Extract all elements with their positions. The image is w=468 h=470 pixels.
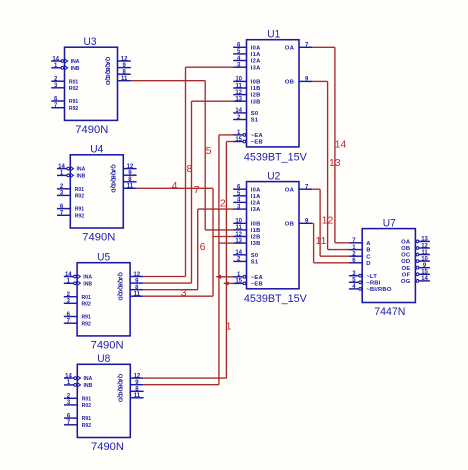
svg-text:INA: INA (83, 275, 92, 281)
svg-text:I0A: I0A (251, 45, 261, 51)
svg-text:I0B: I0B (251, 221, 261, 227)
svg-text:10: 10 (235, 219, 242, 225)
svg-text:15: 15 (235, 279, 242, 285)
svg-text:8: 8 (186, 163, 192, 175)
svg-text:I0B: I0B (251, 80, 261, 86)
svg-text:11: 11 (134, 393, 141, 399)
svg-text:2: 2 (220, 197, 226, 209)
svg-text:U7: U7 (383, 218, 396, 230)
svg-text:OB: OB (285, 80, 294, 86)
svg-text:I2B: I2B (251, 235, 261, 241)
svg-text:INA: INA (71, 59, 80, 65)
svg-text:R92: R92 (69, 106, 79, 112)
svg-text:I3B: I3B (251, 99, 261, 105)
svg-text:12: 12 (421, 243, 428, 249)
svg-text:OD: OD (401, 259, 410, 265)
svg-text:U3: U3 (84, 36, 97, 48)
svg-text:B: B (366, 248, 370, 254)
svg-text:14: 14 (335, 138, 347, 150)
svg-text:OE: OE (401, 266, 410, 272)
svg-text:10: 10 (235, 77, 242, 83)
svg-text:I1B: I1B (251, 86, 261, 92)
svg-text:10: 10 (421, 256, 428, 262)
svg-text:OB: OB (401, 246, 410, 252)
svg-text:14: 14 (235, 250, 242, 256)
svg-text:INA: INA (84, 376, 93, 382)
svg-text:OF: OF (402, 272, 411, 278)
svg-text:I2B: I2B (251, 93, 261, 99)
svg-text:11: 11 (121, 76, 128, 82)
svg-text:11: 11 (421, 250, 428, 256)
svg-text:I1A: I1A (251, 194, 261, 200)
svg-text:14: 14 (58, 164, 65, 170)
svg-text:R91: R91 (82, 416, 92, 422)
svg-text:4539BT_15V: 4539BT_15V (244, 151, 308, 163)
svg-text:R02: R02 (75, 194, 85, 200)
svg-text:7: 7 (194, 184, 200, 196)
svg-text:6: 6 (200, 241, 206, 253)
svg-text:S0: S0 (251, 253, 259, 259)
svg-text:OA: OA (401, 240, 411, 246)
svg-text:~EA: ~EA (251, 275, 264, 281)
svg-text:R91: R91 (82, 315, 92, 321)
svg-text:S1: S1 (251, 260, 259, 266)
svg-text:INB: INB (77, 174, 86, 180)
svg-text:R02: R02 (82, 403, 92, 409)
svg-text:I3A: I3A (251, 65, 261, 71)
svg-text:INB: INB (83, 281, 92, 287)
svg-text:13: 13 (235, 97, 242, 103)
svg-text:I3A: I3A (251, 207, 261, 213)
svg-text:14: 14 (65, 272, 72, 278)
svg-text:12: 12 (235, 232, 242, 238)
svg-text:14: 14 (421, 276, 428, 282)
svg-text:OC: OC (401, 253, 411, 259)
svg-text:3: 3 (181, 287, 187, 299)
svg-text:R01: R01 (82, 396, 92, 402)
svg-text:11: 11 (316, 235, 327, 247)
svg-text:R01: R01 (75, 187, 85, 193)
svg-text:I0A: I0A (251, 187, 261, 193)
svg-text:OB: OB (285, 221, 294, 227)
svg-text:R92: R92 (82, 423, 92, 429)
svg-text:I3B: I3B (251, 241, 261, 247)
svg-text:C: C (366, 254, 371, 260)
svg-text:7490N: 7490N (82, 232, 115, 244)
svg-text:5: 5 (206, 145, 212, 157)
svg-text:U1: U1 (267, 29, 280, 41)
svg-text:U2: U2 (267, 171, 280, 183)
svg-text:R01: R01 (82, 295, 92, 301)
svg-text:U8: U8 (97, 353, 110, 365)
svg-text:11: 11 (134, 292, 141, 298)
svg-text:R91: R91 (75, 207, 85, 213)
svg-text:INB: INB (84, 383, 93, 389)
svg-text:15: 15 (421, 270, 428, 276)
svg-text:12: 12 (121, 56, 128, 62)
svg-text:12: 12 (235, 90, 242, 96)
svg-text:12: 12 (134, 373, 141, 379)
svg-text:OA: OA (285, 45, 295, 51)
svg-text:I1A: I1A (251, 52, 261, 58)
svg-text:11: 11 (127, 184, 134, 190)
svg-text:~RBI: ~RBI (366, 280, 381, 286)
svg-text:4: 4 (172, 180, 178, 192)
svg-text:~BI/RBO: ~BI/RBO (366, 287, 392, 293)
svg-text:R02: R02 (82, 301, 92, 307)
svg-text:R01: R01 (69, 79, 79, 85)
svg-text:11: 11 (236, 225, 243, 231)
svg-text:~LT: ~LT (366, 274, 377, 280)
svg-text:4539BT_15V: 4539BT_15V (244, 293, 308, 305)
svg-text:A: A (366, 241, 371, 247)
svg-text:7490N: 7490N (91, 441, 124, 453)
svg-text:D: D (366, 261, 370, 267)
svg-text:12: 12 (322, 214, 334, 226)
svg-text:R02: R02 (69, 86, 79, 92)
svg-text:I2A: I2A (251, 59, 261, 65)
svg-text:1: 1 (226, 320, 232, 332)
svg-text:QD: QD (117, 393, 123, 402)
svg-text:14: 14 (52, 56, 59, 62)
svg-text:QD: QD (117, 292, 123, 301)
svg-text:7490N: 7490N (91, 340, 124, 352)
svg-text:7447N: 7447N (374, 306, 405, 318)
svg-text:12: 12 (133, 272, 140, 278)
svg-text:~EA: ~EA (251, 133, 264, 139)
svg-text:INA: INA (77, 167, 86, 173)
svg-text:I2A: I2A (251, 201, 261, 207)
svg-text:12: 12 (127, 164, 134, 170)
svg-text:14: 14 (235, 108, 242, 114)
svg-text:S1: S1 (251, 118, 259, 124)
svg-text:13: 13 (329, 157, 341, 169)
svg-text:R92: R92 (82, 321, 92, 327)
svg-text:OG: OG (401, 279, 411, 285)
svg-text:R91: R91 (69, 99, 79, 105)
svg-text:13: 13 (235, 238, 242, 244)
svg-text:~EB: ~EB (251, 140, 263, 146)
svg-text:14: 14 (65, 373, 72, 379)
svg-text:INB: INB (71, 66, 80, 72)
svg-text:S0: S0 (251, 111, 259, 117)
svg-text:~EB: ~EB (251, 282, 263, 288)
svg-text:13: 13 (421, 237, 428, 243)
svg-text:I1B: I1B (251, 228, 261, 234)
svg-text:7490N: 7490N (75, 124, 108, 136)
svg-text:11: 11 (236, 83, 243, 89)
svg-text:U4: U4 (90, 144, 103, 156)
svg-text:OA: OA (285, 187, 295, 193)
svg-text:15: 15 (235, 137, 242, 143)
svg-text:QD: QD (104, 76, 110, 85)
svg-text:QD: QD (110, 184, 116, 193)
svg-text:U5: U5 (97, 252, 110, 264)
svg-text:R92: R92 (75, 213, 85, 219)
